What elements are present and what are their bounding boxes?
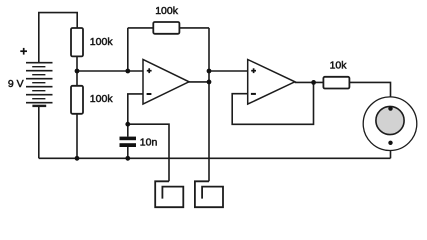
wire C1 top stem	[127, 124, 129, 136]
svg-text:100k: 100k	[155, 5, 179, 17]
wire battery minus down	[38, 106, 40, 158]
wire node A to U1 plus input	[77, 70, 143, 72]
wire feedback resistor left stub	[128, 27, 154, 29]
U2 minus input mark	[251, 93, 256, 95]
battery plus sign	[20, 48, 27, 55]
wire R2 bottom to ground rail	[76, 114, 78, 159]
touch pad E2	[195, 181, 223, 207]
wire U1 output	[188, 81, 209, 83]
wire U1 output to U2 plus input	[209, 70, 248, 72]
wire U2 output to R4	[295, 81, 324, 83]
node A divider junction	[75, 69, 80, 74]
resistor R2 100k	[71, 86, 83, 114]
wire U1 minus input loop	[128, 94, 143, 124]
wire output vertical to pad E2	[208, 28, 210, 181]
piezo pin top	[388, 106, 392, 110]
wire node A to R2 top	[76, 71, 78, 86]
node U2 plus branch	[207, 69, 212, 74]
svg-text:10n: 10n	[140, 137, 158, 149]
resistor R1 100k	[71, 28, 83, 56]
wire R1 bottom to node A	[76, 56, 78, 71]
svg-text:100k: 100k	[90, 36, 114, 48]
wire ground rail	[39, 157, 391, 159]
touch pad E1	[155, 181, 183, 207]
piezo sounder LS1 inner disc	[376, 106, 404, 134]
wire feedback left vertical	[127, 28, 129, 71]
svg-text:100k: 100k	[90, 93, 114, 105]
U1 minus input mark	[147, 93, 152, 95]
wire battery plus up	[39, 13, 77, 63]
capacitor C1 10n	[120, 137, 137, 147]
U1 plus input mark	[147, 68, 152, 73]
node U2 output	[311, 80, 316, 85]
resistor R3 100k feedback	[153, 22, 179, 34]
wire piezo bottom to ground rail	[390, 143, 392, 159]
node cap top	[125, 122, 130, 127]
node R2 ground	[75, 156, 80, 161]
node feedback to plus input	[125, 69, 130, 74]
U2 plus input mark	[251, 68, 256, 73]
svg-text:10k: 10k	[330, 60, 348, 72]
wire cap node to pad E1	[128, 124, 169, 181]
wire U2 feedback loop	[232, 82, 313, 124]
piezo pin bottom	[388, 141, 392, 145]
svg-text:9 V: 9 V	[8, 78, 24, 90]
battery BT1 9V	[26, 63, 53, 106]
wire C1 bottom stem	[127, 147, 129, 158]
wire R4 to piezo top	[349, 82, 390, 108]
op-amp U2	[248, 60, 295, 105]
piezo sounder LS1 outer	[363, 97, 417, 151]
op-amp U1	[143, 60, 189, 105]
node cap ground	[125, 156, 130, 161]
wire feedback resistor right stub	[179, 27, 209, 29]
resistor R4 10k	[323, 77, 349, 89]
node U1 output	[207, 80, 212, 85]
